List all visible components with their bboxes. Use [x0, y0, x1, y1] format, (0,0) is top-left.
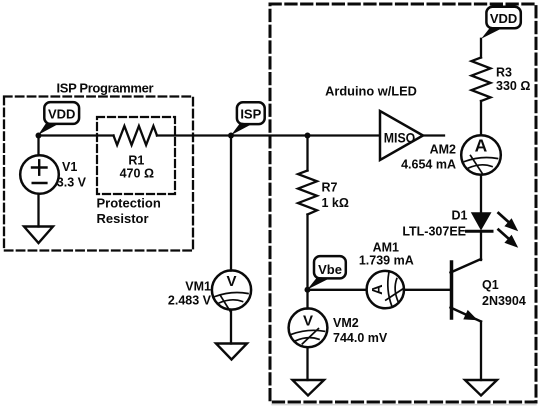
svg-text:Arduino w/LED: Arduino w/LED — [325, 84, 417, 99]
wire: VM2 bottom to ground — [306, 347, 308, 380]
svg-text:1 kΩ: 1 kΩ — [322, 196, 349, 210]
D1 emission arrow 2 — [499, 230, 519, 248]
svg-text:VM1: VM1 — [185, 280, 211, 294]
wire: main horizontal left (node A to R1) — [39, 134, 114, 136]
svg-text:VDD: VDD — [490, 11, 517, 26]
svg-text:ISP Programmer: ISP Programmer — [57, 81, 154, 96]
buffer MISO — [380, 111, 423, 160]
resistor R3 — [472, 58, 491, 102]
svg-text:Protection: Protection — [97, 196, 161, 211]
wire: VM1 bottom to ground — [230, 310, 232, 344]
ground (V1) — [24, 227, 53, 244]
svg-text:744.0 mV: 744.0 mV — [333, 331, 388, 345]
svg-text:D1: D1 — [452, 208, 468, 222]
svg-text:3.3 V: 3.3 V — [57, 176, 87, 190]
svg-text:VM2: VM2 — [333, 316, 359, 330]
svg-text:R3: R3 — [496, 66, 512, 80]
ammeter AM2 — [461, 135, 501, 175]
VDD flag (right) — [481, 7, 521, 39]
svg-text:2N3904: 2N3904 — [482, 294, 526, 308]
R1 protection dashed box — [97, 117, 175, 194]
svg-text:Vbe: Vbe — [318, 262, 342, 277]
ground (VM2) — [293, 380, 325, 396]
svg-text:1.739 mA: 1.739 mA — [359, 253, 414, 267]
resistor R1 — [114, 126, 158, 145]
svg-text:VDD: VDD — [48, 107, 75, 122]
VDD flag (left) — [38, 102, 79, 135]
voltmeter VM2 — [289, 308, 328, 347]
voltage source V1 — [20, 155, 59, 194]
jpeg ghost line under box — [272, 404, 536, 406]
svg-text:Resistor: Resistor — [97, 211, 149, 226]
wire: ISP node down to VM1 — [230, 136, 232, 271]
ISP flag — [231, 102, 264, 135]
svg-text:330 Ω: 330 Ω — [496, 79, 530, 93]
voltmeter VM1 — [212, 270, 251, 312]
wire: AM1 to Q1 base — [404, 289, 451, 291]
svg-text:V1: V1 — [62, 160, 77, 174]
wire: R3 to AM2 — [480, 101, 482, 135]
svg-text:2.483 V: 2.483 V — [168, 294, 212, 308]
wire: main horizontal R1 to MISO input — [157, 134, 380, 136]
wire: node A to V1 top — [37, 136, 39, 156]
wire: Vbe node to AM1 — [308, 289, 367, 291]
resistor R7 — [298, 171, 317, 215]
wire: MISO output stub — [423, 134, 444, 136]
LED D1 — [467, 212, 493, 231]
svg-text:A: A — [475, 135, 488, 155]
svg-text:AM1: AM1 — [373, 240, 399, 254]
ground (Q1) — [465, 380, 497, 396]
Arduino w/LED dashed box — [270, 4, 536, 402]
ammeter AM1 (rotated) — [367, 271, 404, 308]
node ISP junction — [228, 133, 234, 139]
svg-text:470 Ω: 470 Ω — [120, 167, 154, 181]
D1 emission arrow 1 — [499, 213, 519, 231]
svg-text:ISP: ISP — [240, 107, 261, 122]
wire: R7 node down to R7 — [306, 136, 308, 171]
svg-text:R7: R7 — [322, 180, 338, 194]
svg-text:Q1: Q1 — [482, 278, 499, 292]
wire: AM2 to D1 — [480, 175, 482, 213]
svg-text:LTL-307EE: LTL-307EE — [402, 225, 466, 239]
wire: Vbe node down to VM2 — [306, 290, 308, 309]
svg-text:V: V — [226, 273, 236, 290]
wire: V1 bottom to ground — [37, 194, 39, 227]
wire: Q1 emitter to ground — [480, 322, 482, 381]
svg-text:4.654 mA: 4.654 mA — [401, 157, 456, 171]
Vbe flag — [307, 256, 346, 289]
ground (VM1) — [216, 344, 247, 360]
node R7 junction — [305, 133, 311, 139]
wire: R7 bottom to Vbe node — [306, 215, 308, 290]
svg-text:R1: R1 — [128, 153, 144, 167]
wire: D1 to Q1 collector — [480, 231, 482, 260]
svg-text:AM2: AM2 — [430, 142, 456, 156]
ISP Programmer dashed box — [4, 97, 193, 251]
wire: VDD to R3 — [480, 39, 482, 58]
transistor Q1 — [451, 259, 482, 322]
svg-text:V: V — [303, 313, 313, 330]
svg-text:MISO: MISO — [384, 130, 416, 146]
node Vbe junction — [305, 287, 311, 293]
node A (VDD node) — [36, 133, 42, 139]
svg-text:A: A — [370, 284, 386, 295]
